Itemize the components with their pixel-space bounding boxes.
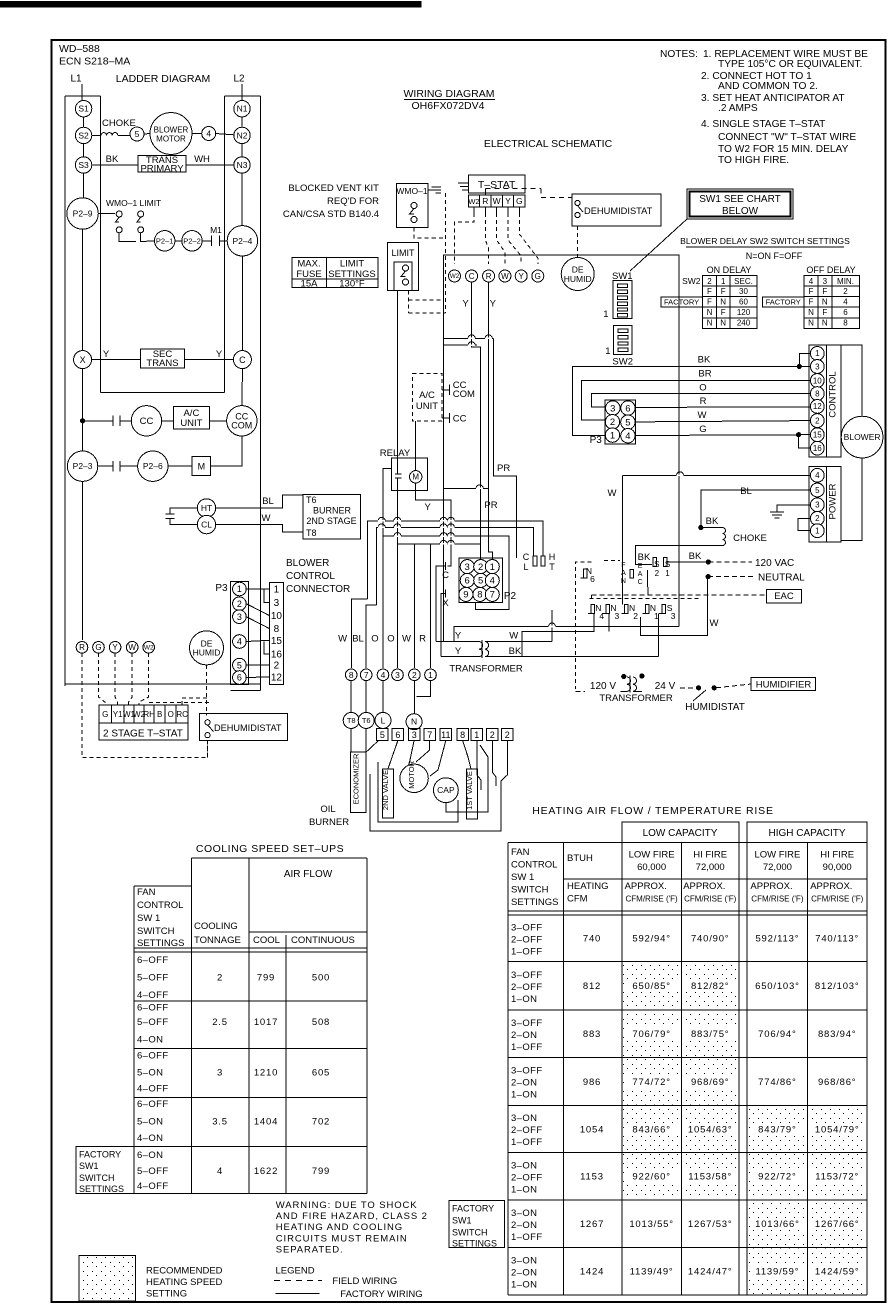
svg-text:2: 2 bbox=[490, 730, 495, 740]
svg-text:SETTINGS: SETTINGS bbox=[137, 938, 185, 949]
svg-text:LIMIT: LIMIT bbox=[340, 259, 364, 270]
svg-text:5: 5 bbox=[815, 486, 820, 495]
svg-text:2–OFF: 2–OFF bbox=[511, 934, 543, 945]
svg-text:DEHUMIDISTAT: DEHUMIDISTAT bbox=[584, 206, 653, 216]
svg-text:N2: N2 bbox=[237, 130, 248, 140]
svg-text:5–ON: 5–ON bbox=[137, 1116, 163, 1127]
svg-text:N: N bbox=[707, 308, 713, 317]
svg-text:1–OFF: 1–OFF bbox=[511, 946, 543, 957]
svg-text:922/60°: 922/60° bbox=[632, 1172, 670, 1183]
svg-text:C: C bbox=[638, 579, 643, 586]
T-STAT terminal cells W2 R W Y G bbox=[468, 195, 525, 207]
svg-text:4–ON: 4–ON bbox=[137, 1035, 163, 1046]
svg-text:CFM/RISE ('F): CFM/RISE ('F) bbox=[811, 895, 864, 904]
svg-text:6–OFF: 6–OFF bbox=[137, 1003, 169, 1014]
svg-text:1–ON: 1–ON bbox=[511, 1090, 537, 1101]
svg-text:NEUTRAL: NEUTRAL bbox=[758, 573, 805, 584]
svg-text:CFM: CFM bbox=[567, 894, 588, 905]
svg-text:Y: Y bbox=[462, 298, 469, 309]
svg-text:592/94°: 592/94° bbox=[632, 934, 670, 945]
svg-text:6–OFF: 6–OFF bbox=[137, 1099, 169, 1110]
svg-text:4: 4 bbox=[815, 471, 820, 480]
svg-text:OFF DELAY: OFF DELAY bbox=[806, 265, 855, 275]
svg-text:BLOWER: BLOWER bbox=[286, 558, 329, 569]
svg-text:1–ON: 1–ON bbox=[511, 1184, 537, 1195]
svg-text:650/103°: 650/103° bbox=[755, 981, 800, 992]
svg-text:BL: BL bbox=[740, 486, 752, 497]
svg-text:4: 4 bbox=[206, 128, 211, 138]
svg-text:HUMIDISTAT: HUMIDISTAT bbox=[685, 702, 745, 713]
svg-text:6: 6 bbox=[590, 574, 595, 584]
dashed field wiring box bbox=[575, 562, 591, 689]
switch N3 bbox=[606, 605, 610, 614]
dehumidistat box (bottom) bbox=[200, 713, 288, 740]
HUMIDIFIER box bbox=[751, 677, 816, 690]
svg-text:P3: P3 bbox=[215, 583, 228, 594]
X capacitor pin bbox=[445, 590, 447, 598]
svg-text:1153: 1153 bbox=[580, 1172, 604, 1183]
hash mark right of WMO-1 bbox=[432, 186, 442, 188]
svg-text:H: H bbox=[549, 552, 556, 562]
svg-text:500: 500 bbox=[312, 972, 330, 983]
svg-text:HI FIRE: HI FIRE bbox=[693, 849, 727, 860]
svg-text:ON DELAY: ON DELAY bbox=[707, 265, 752, 275]
MOTOR circle bbox=[400, 764, 428, 792]
coil CC COM bbox=[227, 406, 257, 436]
svg-text:W: W bbox=[402, 633, 411, 644]
svg-text:2: 2 bbox=[633, 611, 638, 621]
svg-text:Y: Y bbox=[103, 349, 110, 360]
svg-text:706/79°: 706/79° bbox=[632, 1029, 670, 1040]
svg-text:W: W bbox=[698, 410, 707, 421]
LIMIT box bbox=[388, 243, 419, 291]
left rail bbox=[64, 96, 66, 686]
pin list box bbox=[269, 583, 283, 685]
svg-text:16: 16 bbox=[271, 649, 283, 660]
svg-text:6: 6 bbox=[625, 403, 630, 414]
svg-text:2ND STAGE: 2ND STAGE bbox=[306, 516, 356, 526]
svg-text:BL: BL bbox=[352, 633, 364, 644]
svg-text:TRANS: TRANS bbox=[146, 358, 178, 369]
svg-text:WMO–1 LIMIT: WMO–1 LIMIT bbox=[106, 198, 161, 208]
svg-text:Y: Y bbox=[112, 643, 118, 652]
wire BK right of transformer bbox=[657, 621, 659, 657]
dashed wires to 2 stage t-stat bbox=[82, 653, 208, 757]
svg-text:SW 1: SW 1 bbox=[511, 872, 534, 883]
svg-text:3: 3 bbox=[610, 403, 615, 414]
svg-text:N: N bbox=[720, 298, 726, 307]
svg-text:LADDER DIAGRAM: LADDER DIAGRAM bbox=[116, 73, 211, 85]
wire W up from transformer bbox=[551, 610, 553, 642]
svg-text:BELOW: BELOW bbox=[722, 206, 759, 217]
relay coil M bbox=[410, 471, 422, 483]
svg-text:4: 4 bbox=[843, 298, 848, 307]
svg-text:CFM/RISE ('F): CFM/RISE ('F) bbox=[751, 895, 804, 904]
terminal W2 bbox=[449, 270, 461, 282]
svg-text:M1: M1 bbox=[210, 225, 222, 235]
svg-text:W: W bbox=[128, 643, 136, 652]
cooling table bbox=[191, 857, 367, 859]
svg-text:FACTORY: FACTORY bbox=[664, 298, 699, 307]
svg-text:BR: BR bbox=[698, 369, 711, 380]
svg-text:6: 6 bbox=[237, 673, 242, 683]
svg-text:BK: BK bbox=[509, 646, 522, 657]
svg-text:F: F bbox=[822, 308, 827, 317]
svg-text:60: 60 bbox=[739, 298, 748, 307]
contact S3 bbox=[75, 157, 91, 173]
svg-text:1054/63°: 1054/63° bbox=[688, 1124, 733, 1135]
node N3 bbox=[234, 157, 250, 173]
svg-text:L: L bbox=[523, 562, 528, 572]
svg-text:986: 986 bbox=[583, 1077, 601, 1088]
svg-text:C: C bbox=[469, 272, 475, 281]
svg-text:5: 5 bbox=[135, 129, 140, 139]
svg-text:CC: CC bbox=[453, 414, 467, 425]
svg-text:AIR FLOW: AIR FLOW bbox=[284, 869, 333, 880]
svg-text:1–ON: 1–ON bbox=[511, 994, 537, 1005]
factory sw1 switch settings box (heating) bbox=[449, 1201, 505, 1248]
svg-text:RH: RH bbox=[143, 710, 155, 719]
svg-text:1: 1 bbox=[474, 730, 479, 740]
svg-text:30: 30 bbox=[739, 287, 748, 296]
svg-text:1153/58°: 1153/58° bbox=[688, 1172, 732, 1183]
svg-text:812: 812 bbox=[583, 981, 601, 992]
svg-text:1210: 1210 bbox=[254, 1067, 278, 1078]
svg-text:706/94°: 706/94° bbox=[758, 1029, 796, 1040]
svg-text:W: W bbox=[501, 272, 509, 281]
wire W (down to N2) bbox=[621, 475, 623, 604]
blower motor circle bbox=[150, 113, 192, 155]
svg-text:CONTROL: CONTROL bbox=[286, 571, 335, 582]
svg-text:702: 702 bbox=[312, 1116, 330, 1127]
svg-text:CC: CC bbox=[140, 416, 154, 427]
svg-text:P2: P2 bbox=[504, 591, 517, 602]
svg-text:5: 5 bbox=[237, 660, 242, 670]
svg-text:1: 1 bbox=[721, 277, 726, 286]
svg-text:883: 883 bbox=[583, 1029, 601, 1040]
svg-text:1054/79°: 1054/79° bbox=[815, 1124, 860, 1135]
svg-text:6: 6 bbox=[465, 576, 470, 587]
svg-text:W: W bbox=[710, 618, 719, 629]
svg-text:MAX.: MAX. bbox=[297, 259, 320, 270]
svg-text:1017: 1017 bbox=[254, 1017, 278, 1028]
svg-text:6: 6 bbox=[395, 730, 400, 740]
svg-text:BK: BK bbox=[706, 516, 719, 527]
wire neutral down bbox=[640, 577, 707, 636]
svg-text:883/94°: 883/94° bbox=[818, 1029, 856, 1040]
svg-text:2: 2 bbox=[655, 569, 660, 578]
svg-text:2–OFF: 2–OFF bbox=[511, 982, 543, 993]
svg-text:RC: RC bbox=[176, 710, 188, 719]
svg-text:E: E bbox=[638, 563, 643, 570]
svg-text:3–OFF: 3–OFF bbox=[511, 922, 543, 933]
svg-text:SEPARATED.: SEPARATED. bbox=[276, 1244, 344, 1255]
svg-text:1424/47°: 1424/47° bbox=[688, 1267, 733, 1278]
capacitor contact (P2-6 row) bbox=[98, 465, 113, 467]
svg-text:2–OFF: 2–OFF bbox=[511, 1125, 543, 1136]
svg-text:HEATING SPEED: HEATING SPEED bbox=[146, 1277, 223, 1288]
svg-text:1: 1 bbox=[274, 585, 280, 596]
A/C UNIT box bbox=[174, 406, 210, 429]
rail wire S3 to P2-9 bbox=[83, 173, 85, 198]
svg-text:605: 605 bbox=[312, 1067, 330, 1078]
blower wires bbox=[841, 345, 862, 416]
svg-text:POWER: POWER bbox=[828, 483, 839, 519]
svg-text:DEHUMIDISTAT: DEHUMIDISTAT bbox=[214, 723, 282, 733]
svg-text:CAP: CAP bbox=[437, 785, 455, 795]
svg-text:O: O bbox=[699, 383, 706, 394]
FACTORY label (off delay) bbox=[762, 297, 804, 307]
svg-text:3: 3 bbox=[237, 612, 242, 622]
wire to terminal 1 bbox=[430, 544, 432, 668]
SW1 SEE CHART BELOW box bbox=[687, 189, 793, 219]
A/C unit dashed box bbox=[412, 373, 442, 421]
1ST VALVE box bbox=[467, 769, 478, 819]
wire P2-3 to R bbox=[82, 481, 84, 640]
contact P2-1 bbox=[155, 231, 175, 251]
svg-text:3.5: 3.5 bbox=[212, 1116, 228, 1127]
svg-text:Y: Y bbox=[216, 349, 223, 360]
svg-text:2: 2 bbox=[815, 416, 820, 425]
svg-text:LOW CAPACITY: LOW CAPACITY bbox=[643, 828, 718, 839]
svg-text:FACTORY: FACTORY bbox=[79, 1150, 121, 1160]
relay left wire down to burner terminal 4 bbox=[383, 469, 391, 536]
sec trans box bbox=[140, 349, 184, 368]
svg-text:R: R bbox=[700, 396, 707, 407]
svg-text:2: 2 bbox=[610, 417, 615, 428]
svg-text:4: 4 bbox=[237, 637, 242, 647]
svg-text:G: G bbox=[95, 643, 101, 652]
svg-text:COOLING SPEED SET–UPS: COOLING SPEED SET–UPS bbox=[196, 843, 344, 855]
svg-text:1139/49°: 1139/49° bbox=[630, 1267, 674, 1278]
svg-text:8: 8 bbox=[843, 319, 848, 328]
svg-text:BLOWER DELAY SW2 SWITCH SE: BLOWER DELAY SW2 SWITCH SETTINGS bbox=[680, 236, 850, 246]
svg-text:1: 1 bbox=[815, 349, 820, 358]
svg-text:HEATING AND COOLING: HEATING AND COOLING bbox=[276, 1222, 403, 1233]
wire node 5 bbox=[130, 127, 144, 141]
svg-text:SW1: SW1 bbox=[452, 1216, 472, 1226]
svg-text:7: 7 bbox=[364, 670, 369, 680]
svg-text:2 STAGE T–STAT: 2 STAGE T–STAT bbox=[103, 729, 183, 740]
svg-text:3: 3 bbox=[412, 730, 417, 740]
recommended heating speed hatch box bbox=[79, 1256, 136, 1302]
junction dot bbox=[80, 418, 85, 423]
svg-text:6: 6 bbox=[843, 308, 848, 317]
terminal C bbox=[466, 270, 478, 282]
svg-text:8: 8 bbox=[274, 624, 280, 635]
connector CONTROL bbox=[809, 345, 841, 457]
dashed t-stat wires down bbox=[473, 207, 475, 213]
svg-text:F: F bbox=[707, 298, 712, 307]
contact P2-3 bbox=[67, 451, 97, 481]
svg-text:1: 1 bbox=[815, 527, 820, 536]
terminal G bbox=[532, 270, 544, 282]
svg-text:C: C bbox=[442, 570, 449, 581]
svg-text:SEC.: SEC. bbox=[734, 277, 753, 286]
trans primary box bbox=[138, 156, 186, 173]
capacity headers bbox=[622, 822, 739, 842]
burner wiring bbox=[388, 741, 398, 769]
hop wire 2 bbox=[377, 527, 534, 605]
svg-text:SW1 SEE CHART: SW1 SEE CHART bbox=[699, 194, 781, 205]
svg-text:W: W bbox=[509, 631, 518, 642]
svg-text:2: 2 bbox=[412, 670, 417, 680]
svg-text:COM: COM bbox=[231, 421, 252, 431]
wire from C terminal bbox=[472, 282, 481, 559]
svg-text:774/86°: 774/86° bbox=[758, 1077, 796, 1088]
svg-text:BLOWER: BLOWER bbox=[154, 125, 189, 134]
svg-text:2–ON: 2–ON bbox=[511, 1030, 537, 1041]
svg-text:7: 7 bbox=[490, 590, 495, 601]
svg-text:F: F bbox=[721, 308, 726, 317]
wire to power pin 4 bbox=[622, 474, 810, 476]
svg-text:N: N bbox=[411, 717, 417, 727]
svg-text:3: 3 bbox=[465, 562, 470, 573]
svg-text:FIELD WIRING: FIELD WIRING bbox=[332, 1276, 397, 1287]
svg-text:WIRING DIAGRAM: WIRING DIAGRAM bbox=[404, 88, 495, 100]
hash mark left of T-STAT bbox=[458, 182, 468, 184]
svg-text:1424: 1424 bbox=[580, 1267, 604, 1278]
svg-text:EAC: EAC bbox=[774, 591, 794, 602]
svg-text:2–ON: 2–ON bbox=[511, 1220, 537, 1231]
switch N4 bbox=[591, 605, 595, 614]
svg-text:1139/59°: 1139/59° bbox=[755, 1267, 799, 1278]
svg-text:SWITCH: SWITCH bbox=[452, 1228, 488, 1238]
dashed t-stat to dehumidistat bbox=[484, 189, 486, 195]
svg-text:SETTINGS: SETTINGS bbox=[79, 1184, 124, 1194]
svg-text:R: R bbox=[419, 633, 426, 644]
svg-text:CHOKE: CHOKE bbox=[733, 533, 767, 544]
HT contact bbox=[197, 499, 215, 517]
svg-text:N1: N1 bbox=[237, 104, 248, 114]
FACTORY label (on delay) bbox=[661, 297, 703, 307]
burner 2nd stage box bbox=[303, 494, 361, 539]
svg-text:15: 15 bbox=[271, 636, 283, 647]
svg-text:O: O bbox=[371, 633, 378, 644]
right rail bbox=[224, 96, 226, 393]
svg-text:N=ON F=OFF: N=ON F=OFF bbox=[746, 251, 803, 261]
terminals 8 7 4 3 2 1 bbox=[345, 669, 357, 681]
svg-text:F: F bbox=[707, 287, 712, 296]
svg-text:812/82°: 812/82° bbox=[691, 981, 729, 992]
svg-text:CIRCUITS MUST REMAIN: CIRCUITS MUST REMAIN bbox=[276, 1233, 408, 1244]
svg-text:OIL: OIL bbox=[320, 804, 335, 815]
svg-text:15: 15 bbox=[813, 431, 822, 440]
svg-text:PRIMARY: PRIMARY bbox=[140, 164, 184, 175]
svg-text:W: W bbox=[262, 513, 271, 524]
svg-text:6–ON: 6–ON bbox=[137, 1150, 163, 1161]
svg-text:CFM/RISE ('F): CFM/RISE ('F) bbox=[684, 895, 737, 904]
svg-text:4–OFF: 4–OFF bbox=[137, 1084, 169, 1095]
svg-text:774/72°: 774/72° bbox=[632, 1077, 670, 1088]
ECONOMIZER box bbox=[351, 752, 367, 813]
CAP circle bbox=[434, 778, 459, 803]
svg-text:W: W bbox=[493, 196, 501, 206]
svg-text:G: G bbox=[516, 196, 523, 206]
svg-text:5–OFF: 5–OFF bbox=[137, 972, 169, 983]
svg-text:TO HIGH FIRE.: TO HIGH FIRE. bbox=[718, 155, 789, 166]
svg-text:883/75°: 883/75° bbox=[691, 1029, 729, 1040]
svg-text:3: 3 bbox=[815, 501, 820, 510]
wire node 4 bbox=[202, 127, 216, 141]
svg-text:BLOCKED VENT KIT: BLOCKED VENT KIT bbox=[288, 183, 379, 194]
wire N4 N3 join bbox=[522, 614, 594, 657]
svg-text:WARNING: DUE TO SHOCK: WARNING: DUE TO SHOCK bbox=[276, 1200, 418, 1211]
ICC capacitor bbox=[442, 417, 450, 419]
svg-text:1404: 1404 bbox=[254, 1116, 278, 1127]
DIP switch SW2 bbox=[614, 326, 632, 355]
svg-text:3: 3 bbox=[671, 611, 676, 621]
svg-text:P2–4: P2–4 bbox=[232, 236, 252, 246]
svg-text:RECOMMENDED: RECOMMENDED bbox=[146, 1266, 223, 1277]
max fuse / limit settings table bbox=[292, 258, 378, 288]
svg-text:HEATING AIR FLOW / TEMPERA: HEATING AIR FLOW / TEMPERATURE RISE bbox=[532, 805, 774, 817]
svg-text:60,000: 60,000 bbox=[637, 862, 666, 873]
svg-text:3–OFF: 3–OFF bbox=[511, 970, 543, 981]
svg-text:LOW FIRE: LOW FIRE bbox=[629, 849, 675, 860]
svg-text:968/69°: 968/69° bbox=[691, 1077, 729, 1088]
svg-text:CHOKE: CHOKE bbox=[102, 118, 136, 129]
svg-text:72,000: 72,000 bbox=[763, 862, 792, 873]
svg-text:W2: W2 bbox=[144, 645, 154, 652]
svg-text:P2–6: P2–6 bbox=[143, 461, 163, 471]
svg-text:P2–3: P2–3 bbox=[73, 461, 93, 471]
terminal Y bbox=[515, 270, 527, 282]
svg-text:T: T bbox=[549, 562, 555, 572]
svg-text:3: 3 bbox=[815, 362, 820, 371]
svg-text:F: F bbox=[809, 298, 814, 307]
svg-text:5–OFF: 5–OFF bbox=[137, 1166, 169, 1177]
svg-text:S3: S3 bbox=[78, 160, 89, 170]
hop wire 3 bbox=[383, 536, 509, 609]
svg-text:UNIT: UNIT bbox=[180, 418, 202, 429]
svg-text:MIN.: MIN. bbox=[837, 277, 854, 286]
long wire under switches bbox=[454, 627, 679, 642]
svg-text:SETTINGS: SETTINGS bbox=[511, 897, 559, 908]
svg-text:C: C bbox=[523, 552, 530, 562]
svg-text:1424/59°: 1424/59° bbox=[815, 1267, 860, 1278]
svg-text:2–ON: 2–ON bbox=[511, 1078, 537, 1089]
svg-text:BURNER: BURNER bbox=[309, 817, 349, 828]
contact P2-4 bbox=[227, 226, 257, 256]
svg-text:LEGEND: LEGEND bbox=[276, 1266, 315, 1277]
svg-text:5–OFF: 5–OFF bbox=[137, 1017, 169, 1028]
svg-text:WMO–1: WMO–1 bbox=[396, 186, 427, 196]
svg-text:BURNER: BURNER bbox=[313, 506, 352, 516]
svg-text:CONTROL: CONTROL bbox=[511, 860, 557, 871]
svg-text:4–ON: 4–ON bbox=[137, 1133, 163, 1144]
svg-text:T6: T6 bbox=[306, 495, 317, 505]
svg-text:FACTORY WIRING: FACTORY WIRING bbox=[340, 1289, 422, 1300]
svg-text:10: 10 bbox=[271, 611, 283, 622]
svg-text:2: 2 bbox=[274, 661, 280, 672]
svg-text:SWITCH: SWITCH bbox=[137, 926, 175, 937]
svg-text:2: 2 bbox=[843, 287, 848, 296]
svg-text:HT: HT bbox=[201, 503, 212, 513]
rail wire P2-9 to X bbox=[82, 229, 84, 350]
svg-text:4: 4 bbox=[217, 1166, 223, 1177]
svg-text:2: 2 bbox=[815, 514, 820, 523]
svg-text:T8: T8 bbox=[347, 716, 356, 725]
svg-text:AND COMMON TO 2.: AND COMMON TO 2. bbox=[718, 81, 818, 92]
svg-text:4–OFF: 4–OFF bbox=[137, 990, 169, 1001]
svg-text:843/66°: 843/66° bbox=[632, 1124, 670, 1135]
svg-text:R: R bbox=[482, 196, 488, 206]
svg-text:NOTES:: NOTES: bbox=[660, 49, 698, 60]
svg-text:4. SINGLE STAGE T–STAT: 4. SINGLE STAGE T–STAT bbox=[701, 119, 825, 130]
svg-text:HIGH CAPACITY: HIGH CAPACITY bbox=[768, 828, 845, 839]
svg-text:4–OFF: 4–OFF bbox=[137, 1181, 169, 1192]
